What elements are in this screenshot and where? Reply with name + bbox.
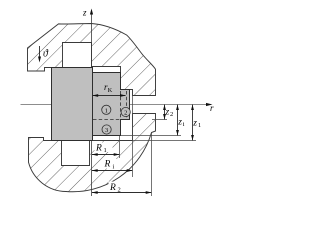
z2 dimension line [164, 105, 166, 120]
dashed zone divider vertical [120, 91, 122, 120]
zone circle 3 [102, 125, 111, 134]
svg-text:i: i [113, 163, 115, 170]
svg-text:i: i [183, 121, 185, 128]
zi extension line [121, 135, 181, 137]
rK dimension line [93, 95, 126, 97]
rotor gray block right part [93, 73, 130, 136]
svg-text:1: 1 [104, 147, 107, 154]
z-axis [91, 10, 93, 196]
R2 dimension line [92, 192, 151, 194]
zone circle 2 [121, 107, 130, 116]
Ri extension line [132, 96, 134, 177]
z1 extension line [133, 140, 197, 142]
dashed zone divider horizontal [93, 119, 121, 121]
R1 label background [95, 143, 113, 153]
zi dimension line [177, 105, 179, 136]
svg-text:z: z [192, 119, 197, 129]
z2 extension line [152, 119, 167, 121]
R2 extension line [151, 133, 153, 196]
svg-text:z: z [82, 8, 87, 18]
svg-text:z: z [165, 108, 170, 118]
svg-text:2: 2 [124, 110, 127, 117]
svg-text:2: 2 [170, 111, 173, 118]
z1 dimension line [192, 105, 194, 141]
r-axis center line [21, 104, 212, 106]
rotor gray block left part [52, 68, 93, 141]
upper housing (hatched section) [28, 24, 156, 96]
Ri label background [104, 159, 120, 169]
dashed contact radius line rK [126, 91, 128, 120]
svg-text:r: r [210, 103, 214, 113]
svg-text:R: R [109, 183, 116, 193]
lower housing (hatched section) [29, 114, 156, 192]
R1 dimension line [92, 154, 119, 156]
svg-text:1: 1 [198, 122, 201, 129]
Ri dimension line [92, 170, 132, 172]
svg-text:2: 2 [118, 186, 121, 193]
svg-text:R: R [95, 144, 102, 154]
svg-text:z: z [177, 118, 182, 128]
svg-text:K: K [108, 87, 113, 94]
R1 extension line [119, 136, 121, 158]
svg-text:1: 1 [105, 107, 108, 114]
theta arrow [39, 46, 41, 60]
svg-text:R: R [104, 160, 111, 170]
R2 label background [109, 182, 127, 192]
svg-text:3: 3 [105, 127, 108, 134]
zone circle 1 [102, 105, 111, 114]
